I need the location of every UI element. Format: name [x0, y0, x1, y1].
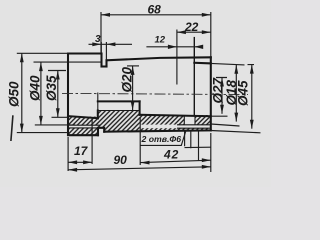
right flange hole Ø6 edges: [184, 115, 195, 125]
groove right wall: [105, 60, 107, 66]
Ø18 arrows: [234, 65, 238, 74]
long top edge: [107, 57, 211, 60]
Ø20 dim: [127, 65, 139, 67]
90 arrows: [68, 168, 77, 172]
left flange hole Ø6 edges: [69, 125, 100, 128]
22 dim: [176, 30, 178, 85]
right wall block lower: [140, 128, 211, 130]
Ø27 arrows: [220, 78, 224, 87]
leader 2otv: [140, 130, 186, 146]
68 arrows: [101, 13, 110, 17]
svg-text:Ø50: Ø50: [7, 81, 22, 107]
svg-text:Ø45: Ø45: [236, 80, 251, 106]
22 arrows: [177, 30, 186, 34]
Ø45 dim: [211, 65, 261, 133]
bore35 bottom: [68, 116, 98, 118]
bore27 bottom: [140, 115, 211, 116]
flange1 bottom: [68, 134, 98, 136]
svg-text:Ø40: Ø40: [28, 75, 43, 101]
groove bottom: [102, 65, 107, 67]
scan artifact stroke at left: [11, 115, 13, 141]
svg-text:12: 12: [155, 35, 166, 46]
42 dim: [139, 117, 141, 165]
svg-text:22: 22: [184, 20, 199, 34]
3 dim: [101, 42, 106, 60]
68 dim: [101, 12, 211, 60]
notch white below bottom groove: [99, 129, 104, 137]
Ø18 dim: [211, 63, 245, 126]
Ø50 arrows: [20, 53, 24, 62]
17 arrows: [68, 160, 77, 164]
left face: [67, 54, 69, 136]
svg-text:Ø35: Ø35: [44, 75, 59, 101]
12 arrows (outside): [168, 45, 177, 49]
bottom groove notch: [98, 128, 104, 135]
flange2 left face line: [193, 38, 195, 116]
bottom outer edge long: [104, 130, 211, 131]
svg-text:3: 3: [95, 34, 101, 45]
3 arrows (outside): [92, 42, 101, 46]
42 arrows: [141, 161, 150, 165]
svg-text:90: 90: [114, 153, 128, 167]
Ø35 dim: [48, 71, 68, 118]
Ø45 arrows: [250, 65, 254, 74]
Ø50 dim: [17, 53, 68, 132]
svg-text:2 отв.Ф6: 2 отв.Ф6: [141, 134, 182, 144]
flange1 top: [68, 52, 102, 54]
flange1 right face: [100, 54, 102, 67]
svg-text:68: 68: [148, 3, 162, 17]
90 dim: [210, 133, 212, 172]
svg-text:4 2: 4 2: [163, 148, 179, 162]
svg-text:Ø20: Ø20: [120, 66, 135, 92]
bore20 bottom (thread minor, thick): [98, 100, 140, 102]
hole edges: [69, 115, 211, 128]
thread major thin line: [98, 93, 140, 111]
flange2 top edge: [194, 62, 211, 65]
right face: [210, 57, 212, 130]
svg-text:17: 17: [74, 144, 89, 158]
17 dim: [68, 118, 92, 171]
Ø35 arrows: [56, 71, 60, 80]
12 dim: [146, 46, 202, 48]
Ø40 dim: [34, 62, 102, 125]
flange1 section wall band upper: [69, 117, 100, 126]
Ø40 arrows: [39, 62, 43, 71]
right wall block upper: [140, 115, 211, 125]
flange1 section wall band lower: [69, 128, 100, 136]
Ø27 dim: [211, 78, 228, 117]
mid wall block: [98, 111, 140, 132]
counterbore step: [97, 111, 99, 119]
Ø20 arrows: [131, 66, 135, 75]
bore step right: [139, 101, 141, 114]
right hole white gap: [185, 115, 196, 125]
